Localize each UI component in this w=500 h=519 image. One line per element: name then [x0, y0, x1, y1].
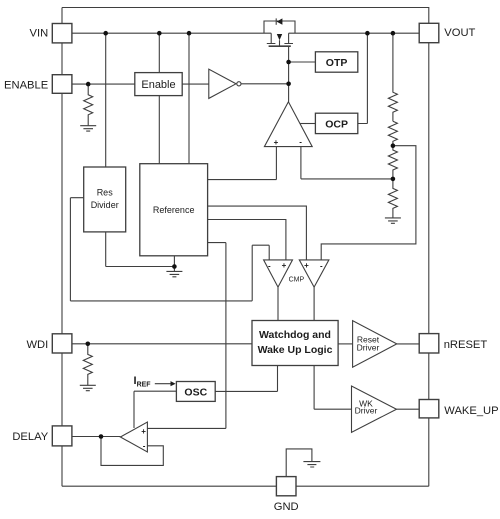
pin ENABLE [52, 75, 72, 94]
wire reset driver to nRESET [397, 343, 419, 345]
ground G3 [385, 218, 401, 223]
pin nRESET [419, 334, 439, 353]
node VOUT-ocp junction [365, 31, 370, 36]
node divider tap2 [391, 177, 396, 182]
wire OSC to delay opamp [134, 391, 176, 428]
wire WDI to watchdog [72, 343, 252, 345]
buffer U6 reset driver [353, 321, 397, 368]
svg-text:+: + [304, 261, 309, 270]
comparator U4 right CMP [299, 260, 329, 287]
svg-text:Reference: Reference [153, 205, 195, 215]
transistor Q1 pass PMOS [267, 33, 293, 43]
pin VOUT [419, 23, 439, 42]
resistor R4 vout divider [388, 121, 397, 145]
svg-text:WDI: WDI [26, 339, 48, 351]
node gate-inverter junction [286, 82, 291, 87]
svg-text:Driver: Driver [357, 342, 380, 352]
node VIN-reference junction [187, 31, 192, 36]
node reference ground junction [172, 264, 177, 269]
block Watchdog and Wake Up Logic [252, 321, 338, 366]
wire opamp feedback loop [101, 437, 163, 466]
ground G4 reference [166, 267, 182, 277]
wire ENABLE pin to Enable block [72, 83, 135, 85]
svg-text:Divider: Divider [91, 200, 119, 210]
resistor R1 enable pulldown [84, 84, 93, 125]
svg-text:ENABLE: ENABLE [4, 79, 48, 91]
node delay junction [99, 434, 104, 439]
block Res Divider [84, 167, 126, 232]
pin VIN [52, 24, 72, 43]
wire res divider bottom to ground node [106, 232, 175, 267]
node VOUT-divider junction [391, 31, 396, 36]
inverter U1 [209, 69, 236, 98]
svg-text:GND: GND [274, 501, 299, 513]
svg-text:Enable: Enable [141, 79, 175, 91]
wire reference to error amp plus [208, 147, 277, 180]
svg-text:+: + [282, 261, 287, 270]
wire OCP to error amp [300, 123, 315, 125]
buffer U7 wk driver [352, 386, 397, 432]
svg-text:VOUT: VOUT [444, 27, 475, 39]
svg-text:+: + [274, 138, 279, 147]
node VIN-enable junction [157, 31, 162, 36]
wire gate node vertical [288, 46, 290, 102]
pin WDI [52, 334, 72, 353]
svg-text:+: + [141, 427, 146, 436]
svg-text:DELAY: DELAY [12, 431, 48, 443]
wire gate node to OTP [289, 61, 316, 63]
svg-text:Watchdog and: Watchdog and [259, 329, 331, 341]
pin DELAY [52, 426, 72, 446]
top border wire [62, 8, 429, 24]
op-amp U2 error amplifier [264, 102, 312, 147]
node VIN-resdiv junction [103, 31, 108, 36]
pin WAKE_UP [419, 400, 439, 418]
svg-text:WAKE_UP: WAKE_UP [444, 405, 498, 417]
comparator U3 left CMP [264, 260, 293, 287]
wire reference to delay opamp plus [147, 243, 226, 429]
wire Enable block to Reference [158, 96, 160, 164]
wire reference to left CMP plus [208, 220, 286, 260]
wire OCP to VOUT rail [358, 33, 368, 123]
wire GND pin to ground symbol [286, 449, 312, 477]
svg-text:-: - [143, 441, 146, 450]
wire res divider tap to left CMP minus [70, 198, 269, 301]
wire divider tap1 to right CMP minus [321, 146, 416, 260]
block OTP [315, 52, 357, 72]
wire DELAY pin to opamp output [72, 436, 121, 438]
wire inverter output to gate node [241, 83, 289, 85]
left border wire segments [61, 8, 63, 487]
wire watchdog to reset driver [338, 343, 353, 345]
svg-text:Wake Up Logic: Wake Up Logic [258, 344, 333, 356]
svg-text:Driver: Driver [355, 406, 378, 416]
wire WK driver to WAKE_UP [397, 408, 420, 410]
svg-text:OCP: OCP [325, 118, 348, 130]
wire error amp minus to divider tap2 [301, 147, 393, 179]
wire right CMP output to watchdog [313, 287, 315, 320]
ground G1 [80, 126, 96, 131]
wire reference bottom to ground node [173, 256, 175, 267]
wire VIN to Res Divider [105, 33, 107, 167]
diode D1 body diode [264, 21, 295, 33]
right border wire segments [428, 43, 430, 487]
resistor R5 vout divider [388, 146, 397, 179]
pin GND [276, 477, 296, 496]
bottom border wire [62, 485, 429, 487]
op-amp U5 delay buffer [120, 422, 147, 452]
node gate-otp junction [286, 60, 291, 65]
svg-text:-: - [320, 262, 323, 271]
resistor R2 wdi pulldown [83, 344, 92, 385]
wire watchdog to WK driver [314, 366, 351, 410]
block Reference [140, 164, 208, 256]
ground G2 [80, 385, 96, 390]
svg-text:nRESET: nRESET [444, 339, 488, 351]
svg-text:Res: Res [97, 188, 114, 198]
block OSC [176, 382, 215, 402]
IREF arrow [155, 383, 171, 385]
wire VIN to Enable block [158, 33, 160, 72]
svg-text:IREF: IREF [134, 375, 152, 388]
block OCP [315, 113, 357, 133]
svg-text:OTP: OTP [326, 57, 348, 69]
wire Enable block to inverter [182, 83, 209, 85]
svg-text:-: - [299, 137, 302, 146]
wire VIN to Reference [188, 33, 190, 164]
VIN rail wire [72, 32, 419, 34]
svg-text:-: - [268, 262, 271, 271]
svg-text:OSC: OSC [184, 386, 207, 398]
wire left CMP output to watchdog [277, 287, 279, 320]
resistor R6 vout divider bottom [388, 179, 397, 218]
wire watchdog to OSC output node [215, 366, 277, 392]
node enable-resistor junction [86, 82, 91, 87]
svg-text:VIN: VIN [30, 28, 49, 40]
node wdi-resistor junction [86, 342, 91, 347]
node divider tap1 [391, 143, 396, 148]
resistor R3 vout divider top [388, 33, 397, 121]
svg-text:CMP: CMP [289, 276, 305, 283]
block Enable [135, 73, 182, 96]
ground G5 near GND pin [303, 462, 320, 467]
wire reference to right CMP plus [208, 206, 307, 260]
